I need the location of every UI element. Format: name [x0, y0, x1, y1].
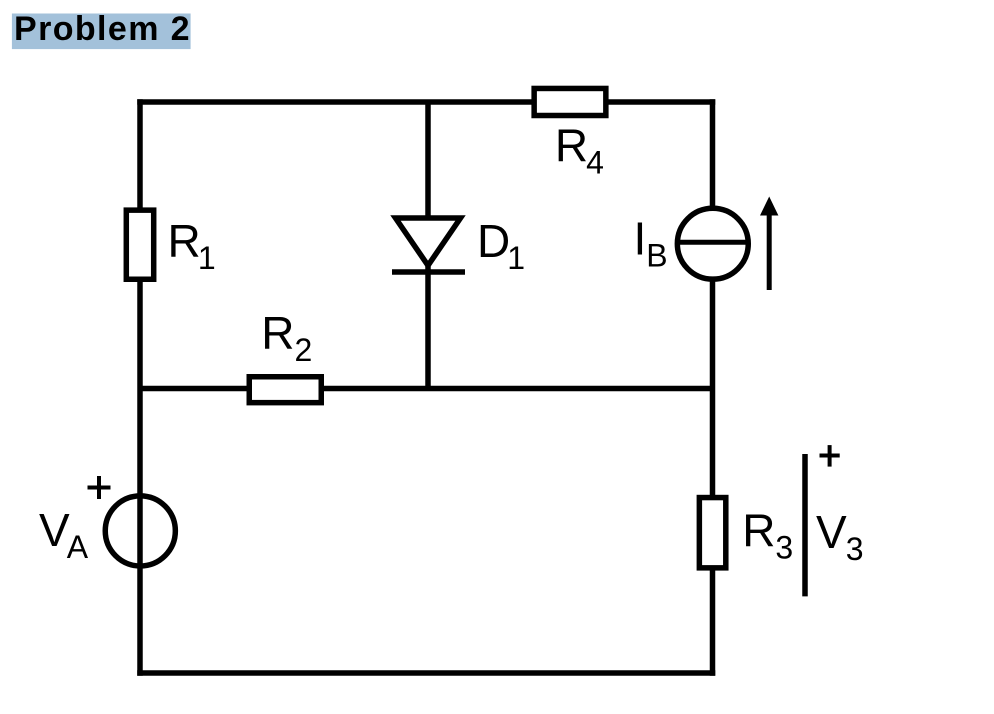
wire left [137, 102, 143, 673]
plus sign VA [88, 476, 111, 499]
svg-text:R2: R2 [261, 307, 312, 368]
plus sign V3 [820, 445, 840, 467]
resistor R4 [534, 88, 606, 115]
wire right [710, 102, 716, 673]
resistor R3 [699, 498, 725, 568]
svg-text:V3: V3 [816, 506, 863, 567]
V3 polarity bar [802, 454, 808, 596]
svg-text:Problem 2: Problem 2 [14, 10, 191, 48]
wire bottom [140, 670, 713, 676]
svg-text:IB: IB [634, 213, 668, 274]
diode D1 [392, 218, 465, 272]
current source IB [677, 208, 748, 279]
svg-text:R4: R4 [555, 120, 604, 181]
resistor R1 [126, 210, 153, 279]
wire middle horizontal [140, 386, 713, 392]
svg-text:R3: R3 [742, 505, 793, 566]
svg-text:D1: D1 [477, 215, 525, 276]
wire top [140, 99, 713, 105]
wire diode branch [425, 102, 431, 389]
arrow IB direction [760, 197, 778, 291]
resistor R2 [249, 377, 321, 403]
svg-text:VA: VA [39, 504, 89, 565]
title "Problem 2" [12, 10, 191, 49]
voltage source VA [105, 496, 175, 566]
svg-text:R1: R1 [168, 215, 216, 276]
